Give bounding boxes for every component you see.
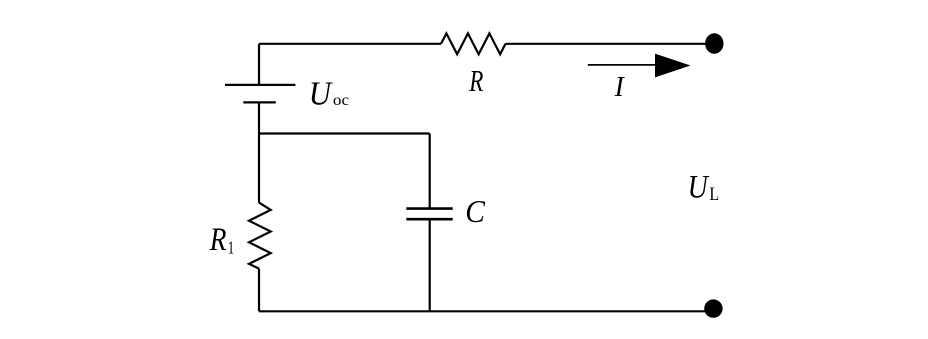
battery Uoc: long plate — [225, 84, 295, 86]
resistor R — [441, 33, 506, 54]
wire: bottom rail — [259, 310, 706, 312]
svg-text:C: C — [465, 194, 485, 229]
wire: left branch top (top rail down to battery plate) — [258, 44, 260, 85]
svg-text:R: R — [209, 221, 227, 258]
svg-text:L: L — [709, 182, 719, 204]
svg-text:U: U — [309, 74, 334, 112]
svg-text:R: R — [468, 64, 483, 98]
svg-text:U: U — [688, 168, 710, 205]
node: negative output terminal (bottom right dot) — [704, 299, 722, 317]
svg-text:oc: oc — [333, 90, 349, 108]
svg-text:I: I — [614, 72, 626, 104]
wire: junction branch to capacitor (horizontal) — [259, 132, 430, 134]
node: positive output terminal (top right dot) — [705, 33, 723, 54]
current arrow I: shaft — [588, 64, 660, 66]
current arrow I: head — [655, 54, 691, 78]
wire: left branch bottom (R1 to bottom rail) — [258, 269, 260, 312]
capacitor C: top plate — [406, 207, 452, 210]
svg-text:1: 1 — [228, 238, 234, 258]
capacitor C: bottom plate — [406, 218, 452, 221]
resistor R1 — [249, 203, 271, 269]
battery Uoc: short plate — [243, 101, 275, 103]
wire: capacitor branch bottom (capacitor down to bottom rail) — [429, 220, 431, 311]
wire: top rail right segment (resistor R to positive terminal) — [506, 43, 708, 45]
wire: top rail left segment (battery top to resistor R) — [259, 43, 441, 45]
wire: capacitor branch top (junction down to capacitor) — [429, 134, 431, 208]
wire: left branch middle (battery to resistor R1, through junction) — [258, 102, 260, 202]
